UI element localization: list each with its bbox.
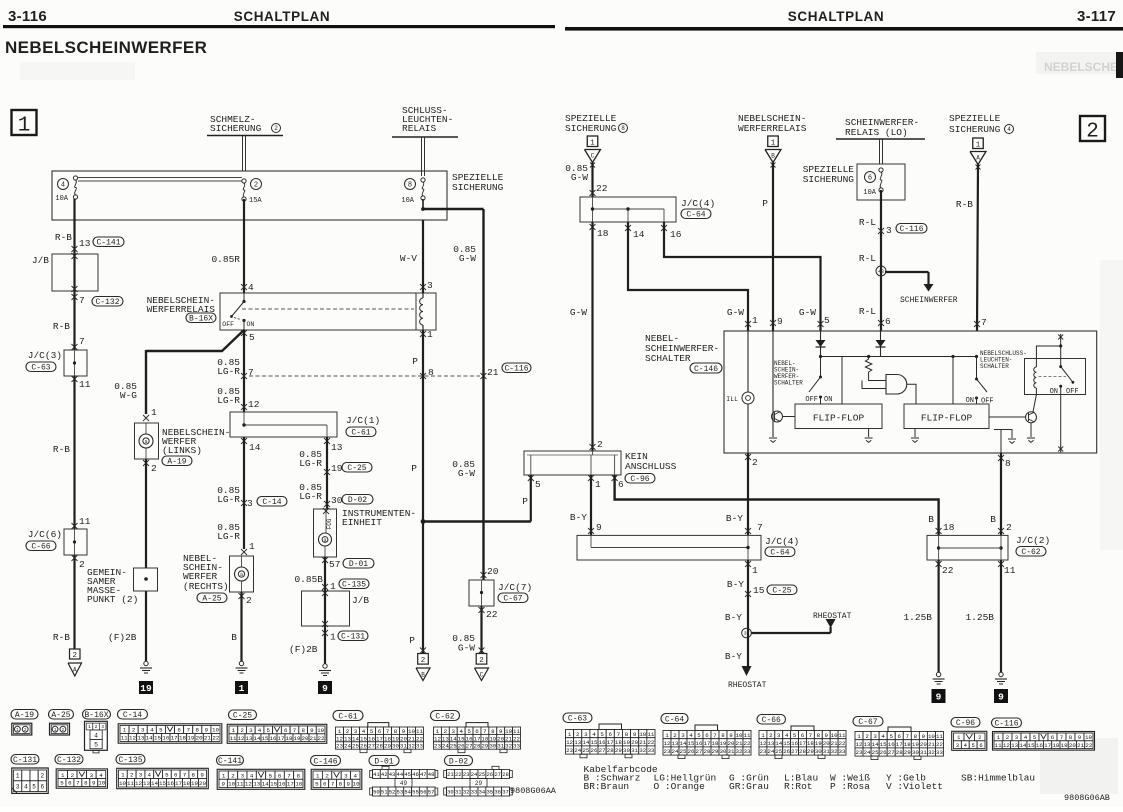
svg-text:31: 31 — [728, 748, 735, 755]
svg-text:BR:Braun: BR:Braun — [584, 781, 630, 792]
svg-text:15: 15 — [154, 735, 161, 742]
svg-text:33: 33 — [936, 749, 943, 756]
svg-text:21: 21 — [831, 740, 838, 747]
svg-text:10: 10 — [212, 727, 219, 734]
svg-text:J/C(1): J/C(1) — [346, 415, 380, 426]
svg-text:50: 50 — [373, 789, 380, 796]
svg-text:10: 10 — [831, 732, 838, 739]
svg-text:G-W: G-W — [727, 307, 744, 318]
svg-text:6: 6 — [1051, 734, 1055, 741]
svg-text:1: 1 — [771, 139, 776, 147]
svg-text:14: 14 — [450, 735, 457, 742]
svg-text:6: 6 — [898, 733, 902, 740]
svg-text:19: 19 — [187, 735, 194, 742]
svg-text:12: 12 — [245, 781, 252, 788]
svg-text:29: 29 — [481, 743, 488, 750]
svg-text:20: 20 — [302, 735, 309, 742]
svg-text:2: 2 — [274, 125, 278, 132]
svg-text:4: 4 — [24, 783, 28, 790]
svg-text:30: 30 — [331, 495, 343, 506]
svg-text:3: 3 — [354, 728, 358, 735]
svg-text:19: 19 — [489, 735, 496, 742]
svg-text:2: 2 — [71, 772, 75, 779]
svg-text:13: 13 — [137, 735, 144, 742]
svg-text:1: 1 — [665, 732, 669, 739]
svg-text:3: 3 — [1015, 734, 1019, 741]
svg-text:3-117: 3-117 — [1077, 8, 1116, 25]
svg-text:4: 4 — [250, 772, 254, 779]
svg-text:6: 6 — [705, 732, 709, 739]
svg-text:41: 41 — [373, 771, 380, 778]
svg-text:C-135: C-135 — [118, 756, 142, 765]
svg-text:17: 17 — [896, 741, 903, 748]
svg-text:C-63: C-63 — [31, 363, 50, 372]
svg-text:37: 37 — [502, 789, 509, 796]
svg-text:12: 12 — [336, 735, 343, 742]
svg-text:2: 2 — [479, 657, 484, 665]
svg-text:20: 20 — [920, 741, 927, 748]
svg-text:1: 1 — [249, 541, 255, 552]
svg-text:SCHALTER: SCHALTER — [774, 380, 803, 387]
svg-text:P: P — [409, 635, 415, 646]
svg-text:J/C(7): J/C(7) — [498, 582, 532, 593]
svg-text:1: 1 — [151, 407, 157, 418]
svg-text:C: C — [480, 672, 484, 679]
svg-text:45: 45 — [404, 771, 411, 778]
svg-text:25: 25 — [680, 748, 687, 755]
svg-text:22: 22 — [212, 735, 219, 742]
svg-text:24: 24 — [767, 748, 774, 755]
svg-text:15: 15 — [159, 780, 166, 787]
svg-text:3: 3 — [90, 772, 94, 779]
svg-text:21: 21 — [639, 739, 646, 746]
svg-text:C-14: C-14 — [123, 711, 142, 720]
svg-text:30: 30 — [392, 743, 399, 750]
svg-text:13: 13 — [143, 780, 150, 787]
svg-text:4: 4 — [459, 728, 463, 735]
svg-text:a: a — [323, 538, 326, 544]
svg-text:5: 5 — [889, 733, 893, 740]
svg-text:22: 22 — [455, 771, 462, 778]
svg-text:28: 28 — [896, 749, 903, 756]
svg-text:27: 27 — [888, 749, 895, 756]
svg-text:8: 8 — [84, 780, 88, 787]
svg-text:16: 16 — [279, 781, 286, 788]
svg-text:26: 26 — [360, 743, 367, 750]
svg-text:3: 3 — [101, 724, 104, 730]
svg-text:8: 8 — [192, 771, 196, 778]
svg-text:2: 2 — [1006, 734, 1010, 741]
svg-text:16: 16 — [270, 735, 277, 742]
svg-text:C-131: C-131 — [341, 632, 365, 641]
svg-text:2: 2 — [978, 734, 981, 741]
svg-text:1: 1 — [121, 771, 125, 778]
svg-text:12: 12 — [566, 739, 573, 746]
svg-text:C-63: C-63 — [568, 714, 587, 723]
svg-text:A-19: A-19 — [167, 457, 186, 466]
svg-text:22: 22 — [839, 740, 846, 747]
svg-text:22: 22 — [942, 565, 954, 576]
svg-text:21: 21 — [447, 771, 454, 778]
svg-text:FOG: FOG — [326, 518, 333, 529]
svg-text:32: 32 — [736, 748, 743, 755]
svg-text:4: 4 — [150, 727, 154, 734]
svg-text:5: 5 — [535, 479, 541, 490]
svg-text:25: 25 — [479, 771, 486, 778]
svg-text:7: 7 — [186, 727, 190, 734]
svg-text:19: 19 — [294, 735, 301, 742]
svg-text:ON: ON — [824, 396, 832, 404]
svg-text:C-64: C-64 — [686, 210, 705, 219]
svg-text:10: 10 — [317, 727, 324, 734]
svg-text:20: 20 — [823, 740, 830, 747]
svg-text:8: 8 — [339, 781, 343, 788]
svg-text:5: 5 — [972, 742, 975, 749]
svg-text:34: 34 — [479, 789, 486, 796]
svg-text:B-Y: B-Y — [727, 579, 744, 590]
svg-text:(LINKS): (LINKS) — [162, 445, 202, 456]
svg-text:C-14: C-14 — [262, 498, 281, 507]
svg-text:2: 2 — [1086, 121, 1099, 144]
svg-text:10A: 10A — [401, 197, 414, 205]
svg-text:30: 30 — [489, 743, 496, 750]
svg-text:26: 26 — [590, 747, 597, 754]
svg-text:C-116: C-116 — [504, 364, 528, 373]
svg-text:1.25B: 1.25B — [903, 612, 932, 623]
svg-text:20: 20 — [728, 740, 735, 747]
svg-text:2: 2 — [576, 731, 580, 738]
svg-text:3: 3 — [873, 733, 877, 740]
svg-text:a: a — [144, 439, 147, 445]
svg-text:19: 19 — [191, 780, 198, 787]
svg-text:5: 5 — [267, 727, 271, 734]
svg-text:8: 8 — [428, 367, 434, 378]
svg-text:0.85B: 0.85B — [294, 574, 323, 585]
svg-text:4: 4 — [61, 182, 65, 190]
svg-text:10A: 10A — [55, 195, 68, 203]
svg-text:19: 19 — [392, 735, 399, 742]
svg-text:13: 13 — [246, 735, 253, 742]
svg-text:10: 10 — [119, 780, 126, 787]
svg-text:33: 33 — [471, 789, 478, 796]
svg-text:12: 12 — [129, 735, 136, 742]
svg-text:5: 5 — [824, 315, 830, 326]
svg-text:8: 8 — [297, 772, 301, 779]
svg-text:18: 18 — [1052, 742, 1059, 749]
svg-text:WERFERRELAIS: WERFERRELAIS — [738, 123, 807, 134]
svg-text:13: 13 — [344, 735, 351, 742]
svg-text:SCHALTPLAN: SCHALTPLAN — [788, 9, 885, 24]
svg-text:2: 2 — [151, 463, 157, 474]
svg-text:6: 6 — [618, 479, 624, 490]
svg-text:44: 44 — [397, 771, 404, 778]
svg-text:FLIP-FLOP: FLIP-FLOP — [813, 413, 865, 424]
svg-text:11: 11 — [230, 735, 237, 742]
svg-text:R-B: R-B — [53, 632, 70, 643]
svg-text:G-W: G-W — [570, 307, 587, 318]
svg-text:(F)2B: (F)2B — [289, 644, 318, 655]
svg-text:19: 19 — [912, 741, 919, 748]
svg-text:10: 10 — [928, 733, 935, 740]
svg-text:1: 1 — [338, 728, 342, 735]
svg-text:3: 3 — [681, 732, 685, 739]
svg-text:R:Rot: R:Rot — [784, 781, 813, 792]
svg-text:7: 7 — [287, 772, 291, 779]
svg-text:C-132: C-132 — [95, 298, 119, 307]
svg-text:J/C(3): J/C(3) — [28, 350, 62, 361]
svg-text:52: 52 — [389, 789, 396, 796]
svg-text:6: 6 — [284, 727, 288, 734]
svg-text:29: 29 — [384, 743, 391, 750]
svg-text:36: 36 — [494, 789, 501, 796]
svg-text:SICHERUNG: SICHERUNG — [803, 174, 855, 185]
svg-text:11: 11 — [79, 379, 91, 390]
svg-text:OFF: OFF — [981, 398, 994, 406]
svg-text:6: 6 — [40, 783, 44, 790]
svg-text:31: 31 — [455, 789, 462, 796]
svg-text:22: 22 — [486, 609, 498, 620]
svg-text:3: 3 — [141, 727, 145, 734]
svg-text:16: 16 — [368, 735, 375, 742]
svg-text:10A: 10A — [863, 189, 876, 197]
svg-text:2: 2 — [73, 652, 78, 660]
svg-text:7: 7 — [79, 336, 85, 347]
svg-text:SICHERUNG: SICHERUNG — [210, 123, 262, 134]
svg-text:33: 33 — [744, 748, 751, 755]
svg-text:4: 4 — [99, 772, 103, 779]
svg-text:R-L: R-L — [859, 253, 876, 264]
svg-text:23: 23 — [759, 748, 766, 755]
svg-text:27: 27 — [696, 748, 703, 755]
svg-text:1: 1 — [595, 479, 601, 490]
svg-text:2: 2 — [346, 728, 350, 735]
svg-text:2: 2 — [752, 457, 758, 468]
svg-text:9: 9 — [322, 683, 328, 694]
svg-text:27: 27 — [599, 747, 606, 754]
svg-text:2: 2 — [325, 772, 329, 779]
svg-text:1: 1 — [568, 731, 572, 738]
svg-text:2: 2 — [40, 773, 44, 780]
svg-text:11: 11 — [237, 781, 244, 788]
svg-text:15: 15 — [590, 739, 597, 746]
svg-text:9: 9 — [998, 691, 1004, 702]
svg-text:R-L: R-L — [859, 306, 876, 317]
svg-text:18: 18 — [904, 741, 911, 748]
svg-text:18: 18 — [286, 735, 293, 742]
svg-text:J/C(2): J/C(2) — [1016, 535, 1050, 546]
svg-text:G-W: G-W — [458, 643, 475, 654]
svg-text:3: 3 — [584, 731, 588, 738]
svg-text:13: 13 — [574, 739, 581, 746]
svg-text:2: 2 — [132, 727, 136, 734]
svg-text:B-Y: B-Y — [725, 612, 742, 623]
svg-text:14: 14 — [1019, 742, 1026, 749]
svg-text:5: 5 — [249, 332, 255, 343]
svg-text:J/C(4): J/C(4) — [681, 198, 715, 209]
svg-text:18: 18 — [179, 735, 186, 742]
svg-text:21: 21 — [505, 735, 512, 742]
svg-text:15: 15 — [270, 781, 277, 788]
svg-text:11: 11 — [995, 742, 1002, 749]
svg-text:29: 29 — [615, 747, 622, 754]
svg-text:2: 2 — [865, 733, 869, 740]
svg-text:10: 10 — [408, 728, 415, 735]
svg-text:14: 14 — [146, 735, 153, 742]
svg-text:10: 10 — [1085, 734, 1092, 741]
svg-text:B: B — [771, 153, 775, 160]
svg-text:EINHEIT: EINHEIT — [342, 517, 382, 528]
svg-text:7: 7 — [906, 733, 910, 740]
svg-text:LG-R: LG-R — [299, 491, 322, 502]
svg-text:21: 21 — [408, 735, 415, 742]
svg-text:14: 14 — [872, 741, 879, 748]
svg-text:16: 16 — [167, 780, 174, 787]
svg-text:a: a — [240, 572, 243, 578]
svg-text:C-64: C-64 — [770, 548, 789, 557]
svg-text:1: 1 — [427, 329, 433, 340]
svg-text:P :Rosa: P :Rosa — [830, 781, 870, 792]
svg-text:1: 1 — [88, 724, 91, 730]
svg-text:10: 10 — [98, 780, 105, 787]
svg-text:SICHERUNG: SICHERUNG — [949, 124, 1001, 135]
svg-text:4: 4 — [258, 727, 262, 734]
svg-text:16: 16 — [1036, 742, 1043, 749]
svg-text:11: 11 — [121, 735, 128, 742]
svg-text:J/B: J/B — [32, 255, 49, 266]
svg-text:17: 17 — [287, 781, 294, 788]
svg-text:R-B: R-B — [53, 321, 70, 332]
svg-text:NEBELSCHE: NEBELSCHE — [1044, 60, 1118, 74]
svg-text:1: 1 — [752, 565, 758, 576]
svg-text:O :Orange: O :Orange — [654, 781, 706, 792]
svg-text:7: 7 — [617, 731, 621, 738]
svg-text:14: 14 — [775, 740, 782, 747]
svg-text:8: 8 — [1069, 734, 1073, 741]
svg-text:1: 1 — [239, 683, 245, 694]
svg-text:24: 24 — [864, 749, 871, 756]
svg-text:W-V: W-V — [400, 253, 417, 264]
svg-text:22: 22 — [936, 741, 943, 748]
svg-text:9: 9 — [596, 522, 602, 533]
svg-text:33: 33 — [839, 748, 846, 755]
svg-text:1: 1 — [16, 773, 20, 780]
svg-text:28: 28 — [376, 743, 383, 750]
svg-text:12: 12 — [664, 740, 671, 747]
svg-text:20: 20 — [400, 735, 407, 742]
svg-text:2: 2 — [597, 439, 603, 450]
svg-text:1: 1 — [857, 733, 861, 740]
svg-text:9: 9 — [1078, 734, 1082, 741]
svg-text:14: 14 — [680, 740, 687, 747]
svg-text:9: 9 — [310, 727, 314, 734]
svg-text:LG-R: LG-R — [217, 395, 240, 406]
svg-text:9: 9 — [922, 733, 926, 740]
svg-text:J/B: J/B — [352, 595, 369, 606]
svg-text:3: 3 — [886, 225, 892, 236]
svg-text:9: 9 — [499, 728, 503, 735]
svg-text:3: 3 — [777, 732, 781, 739]
svg-text:28: 28 — [474, 743, 481, 750]
svg-text:5: 5 — [60, 780, 64, 787]
svg-text:3: 3 — [249, 727, 253, 734]
svg-text:4: 4 — [689, 732, 693, 739]
svg-text:9: 9 — [92, 780, 96, 787]
svg-text:4: 4 — [1007, 126, 1011, 133]
svg-text:32: 32 — [831, 748, 838, 755]
svg-text:C-66: C-66 — [762, 716, 781, 725]
svg-text:1: 1 — [997, 734, 1001, 741]
svg-text:2: 2 — [673, 732, 677, 739]
svg-text:B-Y: B-Y — [726, 513, 743, 524]
svg-text:8: 8 — [914, 733, 918, 740]
svg-text:25: 25 — [582, 747, 589, 754]
svg-text:5: 5 — [467, 728, 471, 735]
svg-text:17: 17 — [704, 740, 711, 747]
svg-text:17: 17 — [1044, 742, 1051, 749]
svg-text:R-B: R-B — [53, 444, 70, 455]
svg-text:30: 30 — [720, 748, 727, 755]
svg-text:1: 1 — [752, 315, 758, 326]
svg-text:33: 33 — [416, 743, 423, 750]
svg-text:10: 10 — [639, 731, 646, 738]
svg-text:12: 12 — [135, 780, 142, 787]
svg-text:25: 25 — [872, 749, 879, 756]
svg-text:5: 5 — [600, 731, 604, 738]
svg-text:W-G: W-G — [120, 390, 137, 401]
svg-text:RELAIS: RELAIS — [402, 123, 437, 134]
svg-text:20: 20 — [199, 780, 206, 787]
svg-text:22: 22 — [318, 735, 325, 742]
svg-text:17: 17 — [474, 735, 481, 742]
svg-text:20: 20 — [196, 735, 203, 742]
svg-text:53: 53 — [397, 789, 404, 796]
svg-text:11: 11 — [1004, 565, 1016, 576]
svg-text:14: 14 — [582, 739, 589, 746]
svg-text:20: 20 — [631, 739, 638, 746]
svg-text:7: 7 — [331, 781, 335, 788]
svg-text:57: 57 — [428, 789, 435, 796]
svg-text:19: 19 — [140, 683, 152, 694]
svg-text:1: 1 — [316, 772, 320, 779]
svg-text:9: 9 — [402, 728, 406, 735]
svg-text:33: 33 — [513, 743, 520, 750]
svg-text:3: 3 — [956, 742, 959, 749]
svg-text:13: 13 — [672, 740, 679, 747]
svg-text:19: 19 — [1061, 742, 1068, 749]
svg-text:30: 30 — [815, 748, 822, 755]
svg-text:A-25: A-25 — [202, 594, 221, 603]
svg-text:14: 14 — [633, 229, 645, 240]
svg-text:D-01: D-01 — [374, 757, 393, 766]
svg-text:B-Y: B-Y — [725, 651, 742, 662]
svg-text:12: 12 — [248, 399, 260, 410]
svg-text:31: 31 — [920, 749, 927, 756]
svg-text:C-67: C-67 — [503, 594, 522, 603]
svg-text:5: 5 — [697, 732, 701, 739]
svg-text:C-141: C-141 — [218, 757, 242, 766]
svg-text:20: 20 — [1069, 742, 1076, 749]
svg-text:6: 6 — [68, 780, 72, 787]
svg-text:28: 28 — [799, 748, 806, 755]
svg-text:4: 4 — [881, 733, 885, 740]
svg-text:P: P — [412, 356, 418, 367]
svg-text:C-67: C-67 — [858, 718, 877, 727]
svg-text:46: 46 — [412, 771, 419, 778]
svg-text:16: 16 — [888, 741, 895, 748]
svg-text:23: 23 — [434, 743, 441, 750]
svg-text:26: 26 — [688, 748, 695, 755]
svg-text:5: 5 — [793, 732, 797, 739]
